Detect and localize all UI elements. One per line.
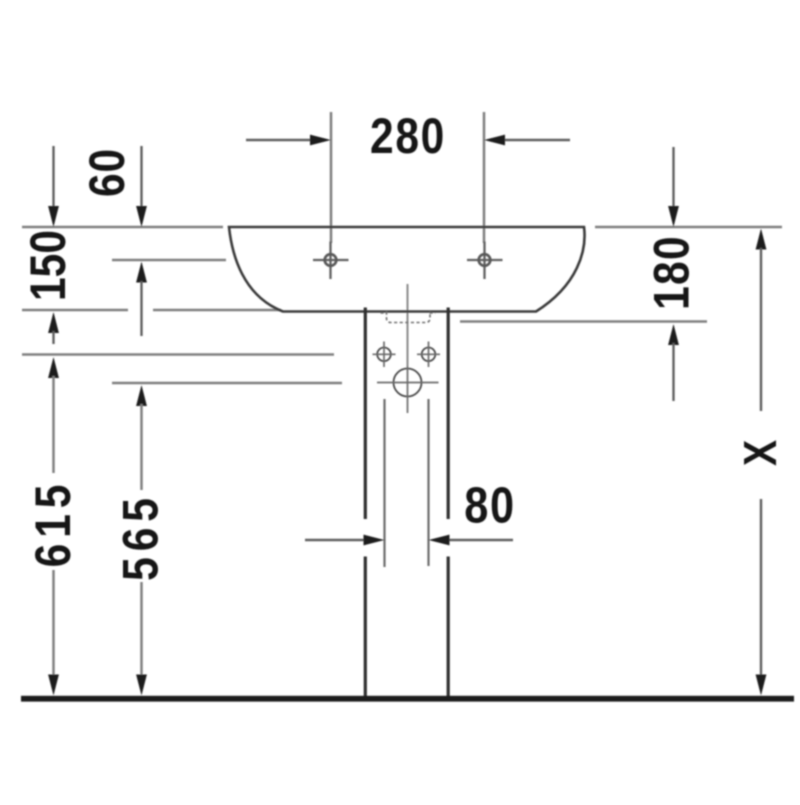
svg-text:565: 565 [112, 492, 168, 581]
svg-text:80: 80 [464, 477, 516, 534]
wire: right extension line of dimension 280 (x=484) [483, 112, 486, 243]
pedestal right wall (with gap for 80 dimension line) [447, 308, 450, 520]
label 280 [370, 108, 446, 164]
dimension 565 vertical line with arrows (x=141.5) [136, 385, 147, 406]
dimension 80 right dimension line with arrow [447, 539, 513, 541]
svg-text:180: 180 [643, 235, 699, 310]
dimension X vertical line with arrows (x=761) [756, 229, 767, 250]
dimension 280 left dimension line with arrow [246, 139, 313, 141]
dimension 280 right dimension line with arrow [504, 139, 570, 141]
wire: mounting-hole centre line (y=354.5) [22, 353, 334, 356]
pedestal left wall (with gap for 80 dimension line) [364, 308, 367, 520]
dimension 150 lower arrow pointing up to basin bottom line [48, 312, 59, 333]
label 615 (rotated) [25, 479, 81, 568]
wire: lower extension line of dimension 180 (y=321.5) [460, 320, 707, 323]
dimension 615 vertical line with arrows (x=53.5) [48, 357, 59, 378]
wire: drain centre line horizontal (y=383) [112, 382, 342, 385]
faucet hole symbol right (cross + circle) [467, 259, 503, 261]
wire: left extension line of dimension 280 (x=331) [330, 112, 333, 243]
svg-text:X: X [735, 439, 787, 466]
mounting hole left (circle + crosshair) [377, 348, 391, 362]
label 60 (rotated) [79, 148, 135, 197]
label 565 (rotated) [112, 492, 168, 581]
dimension 180 upper arrow at x=673.5 pointing down to rim extension [672, 147, 674, 209]
washbasin outline (rim, sides, bottom) [229, 227, 585, 312]
dimension 60 lower arrow pointing up to faucet line [136, 262, 147, 283]
label 80 [464, 477, 516, 534]
svg-text:150: 150 [20, 230, 76, 301]
dimension 180 lower arrow pointing up to y=321.5 line [668, 324, 679, 345]
label X (rotated) [735, 439, 787, 466]
label 180 (rotated) [643, 235, 699, 310]
dimension 60/150 upper arrow at x=53.5 pointing down to rim [52, 146, 54, 209]
wire: right extension line of rim level (y=227) [595, 226, 782, 229]
wire: drain centre line vertical (x=407.5) [407, 284, 409, 366]
wire: right extension line of dimension 80 (x=428.5) [427, 399, 429, 566]
label 150 (rotated) [20, 230, 76, 301]
svg-text:60: 60 [79, 148, 135, 197]
drain hole (circle + crosshair) [394, 369, 422, 397]
wire: left extension line of dimension 80 (x=384.5) [383, 399, 385, 567]
dimension 80 left dimension line with arrow [305, 539, 367, 541]
svg-text:280: 280 [370, 108, 446, 164]
mounting hole right (circle + crosshair) [422, 348, 436, 362]
wire: left extension line of rim level (y=227) [22, 226, 223, 229]
faucet hole symbol left (cross + circle) [313, 259, 349, 261]
wire: basin bottom extension line (y=310) [22, 309, 128, 312]
floor line [21, 696, 794, 702]
svg-text:615: 615 [25, 479, 81, 568]
wire: faucet-hole level extension line (y=260) [112, 259, 226, 262]
overflow dashed U-shape [381, 312, 436, 323]
dimension 60 upper arrow at x=141.5 pointing down to rim [140, 146, 142, 209]
